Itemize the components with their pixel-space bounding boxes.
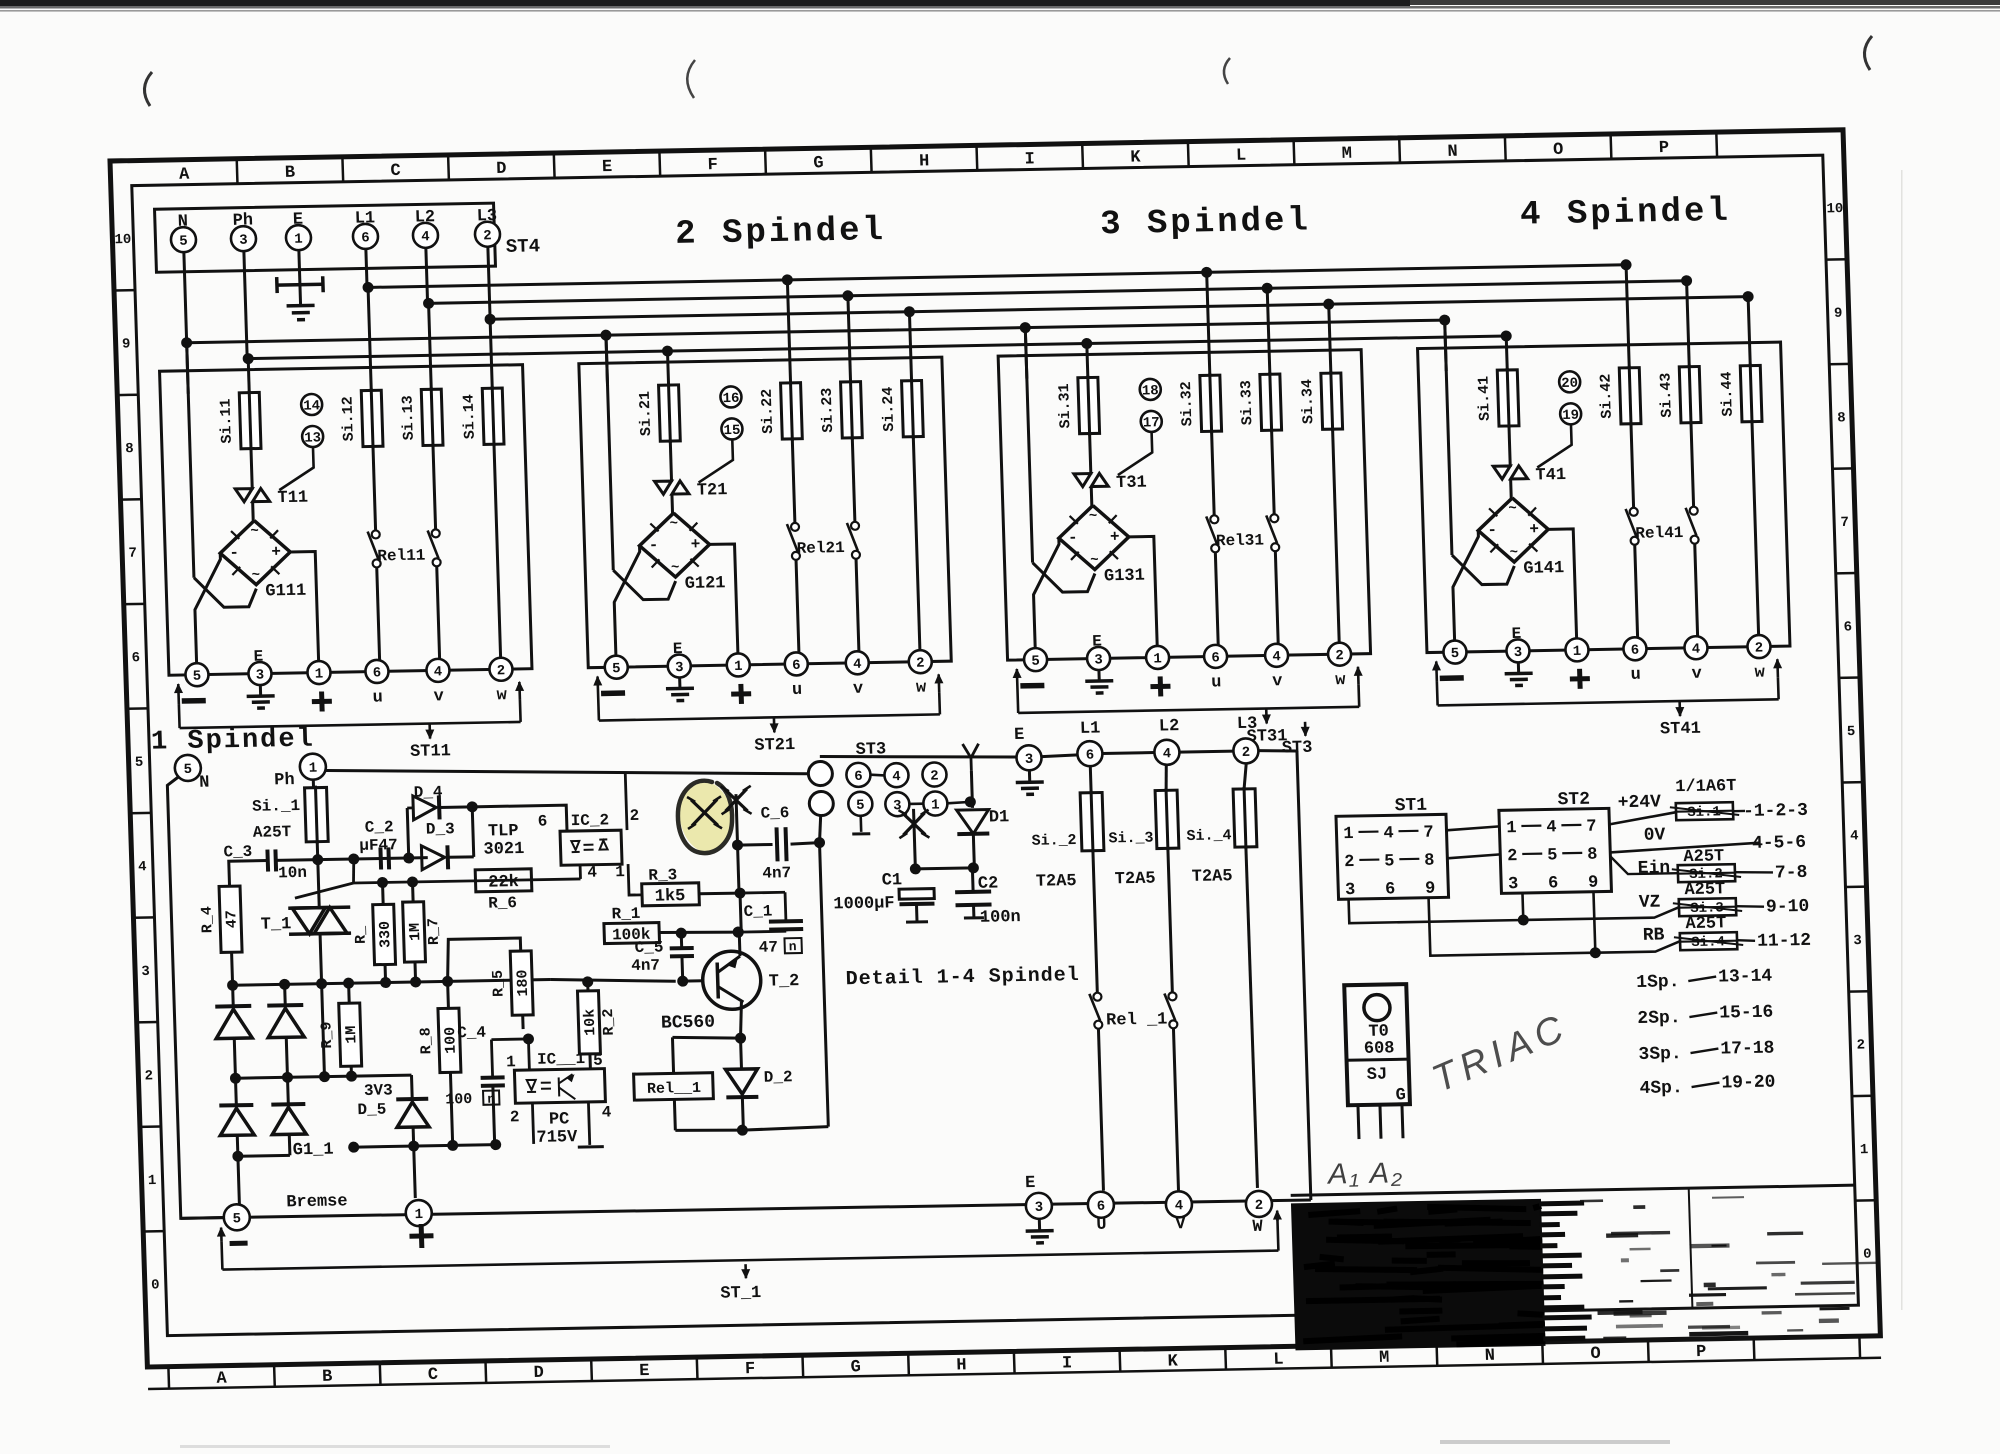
svg-text:2: 2 xyxy=(1344,853,1355,872)
svg-text:6: 6 xyxy=(131,650,140,666)
svg-text:D_4: D_4 xyxy=(413,783,443,802)
svg-text:A25T: A25T xyxy=(1684,880,1725,900)
svg-text:4: 4 xyxy=(1383,824,1394,843)
svg-text:Si._4: Si._4 xyxy=(1186,827,1232,845)
svg-text:E: E xyxy=(639,1362,650,1381)
svg-text:L: L xyxy=(1273,1351,1284,1370)
svg-text:~: ~ xyxy=(1508,501,1517,517)
svg-text:3: 3 xyxy=(1035,1200,1044,1216)
svg-text:6: 6 xyxy=(1631,643,1640,659)
svg-text:PC: PC xyxy=(549,1110,570,1129)
svg-text:Si.11: Si.11 xyxy=(217,398,235,443)
svg-text:Ph: Ph xyxy=(274,771,295,790)
svg-text:SJ: SJ xyxy=(1367,1066,1388,1085)
svg-text:16: 16 xyxy=(722,391,739,407)
svg-text:3: 3 xyxy=(1345,881,1356,900)
svg-text:5: 5 xyxy=(593,1052,603,1070)
svg-text:2: 2 xyxy=(1242,745,1251,761)
svg-text:2: 2 xyxy=(930,768,939,784)
svg-text:2: 2 xyxy=(510,1108,520,1126)
svg-text:v: v xyxy=(433,687,444,706)
svg-text:1: 1 xyxy=(615,863,625,881)
svg-text:4: 4 xyxy=(1272,649,1281,665)
svg-text:608: 608 xyxy=(1364,1039,1395,1059)
svg-text:3Sp.: 3Sp. xyxy=(1638,1044,1682,1065)
svg-text:Si._1: Si._1 xyxy=(252,797,301,816)
svg-text:ST41: ST41 xyxy=(1660,720,1701,740)
svg-text:IC_2: IC_2 xyxy=(570,811,609,830)
svg-text:R_1: R_1 xyxy=(611,905,640,924)
svg-text:A: A xyxy=(179,166,191,185)
svg-text:F: F xyxy=(745,1360,756,1379)
svg-text:I: I xyxy=(1062,1354,1073,1373)
svg-text:17: 17 xyxy=(1143,415,1160,431)
svg-text:4n7: 4n7 xyxy=(762,864,791,883)
svg-text:10: 10 xyxy=(1826,201,1843,217)
svg-text:+24V: +24V xyxy=(1617,792,1661,813)
svg-text:1: 1 xyxy=(414,1207,423,1223)
svg-text:1: 1 xyxy=(294,232,303,248)
svg-text:C_4: C_4 xyxy=(457,1024,487,1043)
svg-text:6: 6 xyxy=(537,813,547,831)
svg-text:C: C xyxy=(390,162,401,181)
svg-text:L3: L3 xyxy=(1237,715,1258,734)
svg-text:D_2: D_2 xyxy=(763,1068,792,1087)
svg-text:T2A5: T2A5 xyxy=(1192,867,1233,887)
svg-text:47: 47 xyxy=(223,910,241,928)
svg-text:13-14: 13-14 xyxy=(1718,967,1773,988)
svg-text:D: D xyxy=(496,160,507,179)
svg-text:4Sp.: 4Sp. xyxy=(1639,1078,1683,1099)
svg-text:5: 5 xyxy=(612,661,621,677)
svg-text:5: 5 xyxy=(856,798,865,814)
svg-text:v: v xyxy=(853,680,864,699)
svg-text:C: C xyxy=(428,1366,439,1385)
svg-text:Si.31: Si.31 xyxy=(1056,383,1074,428)
svg-text:3: 3 xyxy=(141,964,150,980)
svg-text:T21: T21 xyxy=(697,481,728,501)
svg-text:2Sp.: 2Sp. xyxy=(1637,1008,1681,1029)
svg-text:R_9: R_9 xyxy=(318,1021,336,1048)
svg-text:T2A5: T2A5 xyxy=(1115,870,1156,890)
svg-text:2: 2 xyxy=(1335,648,1344,664)
svg-text:3 Spindel: 3 Spindel xyxy=(1100,202,1312,244)
svg-text:1/1A6T: 1/1A6T xyxy=(1675,777,1737,797)
svg-text:A: A xyxy=(216,1370,228,1389)
svg-text:u: u xyxy=(792,681,803,700)
svg-text:B: B xyxy=(322,1368,333,1387)
svg-text:1k5: 1k5 xyxy=(655,887,686,907)
svg-text:Rel41: Rel41 xyxy=(1635,524,1684,543)
svg-text:2: 2 xyxy=(629,807,639,825)
svg-text:4: 4 xyxy=(421,229,430,245)
svg-text:5: 5 xyxy=(1847,724,1856,740)
svg-text:N: N xyxy=(1485,1347,1496,1366)
svg-text:E: E xyxy=(673,640,683,658)
svg-text:~: ~ xyxy=(671,560,680,576)
svg-text:L1: L1 xyxy=(1080,720,1101,739)
svg-text:10: 10 xyxy=(114,232,131,248)
svg-text:6: 6 xyxy=(1843,619,1852,635)
svg-text:u: u xyxy=(1211,673,1222,692)
svg-text:5: 5 xyxy=(193,669,202,685)
svg-text:1 Spindel: 1 Spindel xyxy=(151,725,316,758)
svg-text:L: L xyxy=(1236,147,1247,166)
svg-text:Si.12: Si.12 xyxy=(339,396,357,441)
svg-text:Si.32: Si.32 xyxy=(1178,381,1196,426)
svg-text:+: + xyxy=(690,536,700,554)
svg-text:D_5: D_5 xyxy=(357,1101,386,1120)
svg-text:Si.23: Si.23 xyxy=(819,388,837,433)
svg-text:19-20: 19-20 xyxy=(1721,1073,1776,1094)
svg-text:19: 19 xyxy=(1562,408,1579,424)
svg-text:4: 4 xyxy=(853,657,862,673)
svg-text:Detail 1-4 Spindel: Detail 1-4 Spindel xyxy=(845,964,1080,991)
svg-text:1: 1 xyxy=(1573,644,1582,660)
svg-text:2: 2 xyxy=(144,1068,153,1084)
svg-text:B: B xyxy=(285,164,296,183)
svg-text:8: 8 xyxy=(1837,410,1846,426)
svg-text:P: P xyxy=(1696,1343,1707,1362)
svg-text:R_7: R_7 xyxy=(425,918,443,945)
svg-text:Si._2: Si._2 xyxy=(1031,832,1077,850)
svg-text:H: H xyxy=(956,1356,967,1375)
svg-text:47: 47 xyxy=(758,938,778,956)
svg-text:L2: L2 xyxy=(1159,717,1180,736)
svg-text:9: 9 xyxy=(1425,880,1436,899)
svg-text:N: N xyxy=(1447,143,1458,162)
svg-text:w: w xyxy=(496,686,508,705)
svg-text:9: 9 xyxy=(1588,874,1599,893)
svg-text:5: 5 xyxy=(1384,852,1395,871)
svg-text:~: ~ xyxy=(251,568,260,584)
svg-text:M: M xyxy=(1341,145,1352,164)
svg-text:K: K xyxy=(1130,148,1142,167)
svg-text:4-5-6: 4-5-6 xyxy=(1752,833,1807,854)
svg-text:E: E xyxy=(253,648,263,666)
svg-text:8: 8 xyxy=(1424,852,1435,871)
svg-text:-: - xyxy=(1487,521,1497,539)
svg-text:Rel__1: Rel__1 xyxy=(647,1080,702,1098)
svg-text:100: 100 xyxy=(445,1091,473,1108)
svg-text:0: 0 xyxy=(151,1277,160,1293)
svg-text:ST3: ST3 xyxy=(1282,739,1313,759)
svg-text:µF47: µF47 xyxy=(359,836,398,855)
svg-text:7-8: 7-8 xyxy=(1775,863,1808,884)
svg-text:ST11: ST11 xyxy=(410,742,451,762)
svg-text:1: 1 xyxy=(734,659,743,675)
svg-text:4 Spindel: 4 Spindel xyxy=(1520,193,1732,235)
svg-text:G: G xyxy=(850,1358,861,1377)
svg-text:K: K xyxy=(1167,1352,1179,1371)
svg-text:Rel _1: Rel _1 xyxy=(1106,1010,1168,1030)
svg-text:6: 6 xyxy=(361,230,370,246)
svg-text:G: G xyxy=(813,154,824,173)
svg-text:Rel31: Rel31 xyxy=(1216,531,1265,550)
svg-text:0: 0 xyxy=(1863,1247,1872,1263)
svg-text:10k: 10k xyxy=(582,1009,600,1036)
svg-text:715V: 715V xyxy=(536,1128,578,1148)
svg-text:n: n xyxy=(789,939,797,954)
svg-text:10n: 10n xyxy=(278,864,307,883)
svg-text:6: 6 xyxy=(1548,874,1559,893)
svg-text:v: v xyxy=(1272,672,1283,691)
svg-text:5: 5 xyxy=(1031,654,1040,670)
svg-text:u: u xyxy=(1630,666,1641,685)
svg-text:Si.24: Si.24 xyxy=(880,386,898,431)
svg-text:C_3: C_3 xyxy=(223,843,252,862)
svg-text:3V3: 3V3 xyxy=(364,1081,393,1100)
svg-text:3021: 3021 xyxy=(483,840,524,860)
svg-text:100n: 100n xyxy=(980,908,1021,928)
svg-text:22k: 22k xyxy=(488,873,519,893)
svg-text:2: 2 xyxy=(1856,1038,1865,1054)
svg-text:R_8: R_8 xyxy=(418,1027,436,1054)
svg-text:4: 4 xyxy=(1546,818,1557,837)
svg-text:C_1: C_1 xyxy=(743,903,772,922)
svg-text:ST1: ST1 xyxy=(1394,796,1427,817)
svg-text:8: 8 xyxy=(125,441,134,457)
svg-text:E: E xyxy=(1014,726,1025,745)
svg-text:18: 18 xyxy=(1142,383,1159,399)
svg-text:7: 7 xyxy=(1586,818,1597,837)
svg-text:R_2: R_2 xyxy=(600,1008,618,1035)
svg-text:T2A5: T2A5 xyxy=(1036,872,1077,892)
svg-text:C_2: C_2 xyxy=(365,818,394,837)
svg-text:9: 9 xyxy=(1834,306,1843,322)
svg-text:E: E xyxy=(1092,632,1102,650)
svg-text:D_3: D_3 xyxy=(426,820,455,839)
svg-text:R_3: R_3 xyxy=(648,866,677,885)
svg-text:~: ~ xyxy=(669,516,678,532)
svg-text:Si.14: Si.14 xyxy=(460,394,478,439)
svg-text:3: 3 xyxy=(1025,752,1034,768)
svg-text:2: 2 xyxy=(483,228,492,244)
svg-text:330: 330 xyxy=(377,921,395,948)
svg-text:R_5: R_5 xyxy=(490,970,508,997)
svg-text:G: G xyxy=(1395,1086,1406,1105)
svg-text:Si.44: Si.44 xyxy=(1718,371,1736,416)
svg-text:C1: C1 xyxy=(881,871,902,890)
svg-text:H: H xyxy=(919,152,930,171)
svg-text:TLP: TLP xyxy=(488,822,519,842)
svg-text:U: U xyxy=(1096,1216,1107,1235)
svg-text:u: u xyxy=(372,688,383,707)
svg-text:O: O xyxy=(1553,141,1564,160)
svg-text:1000µF: 1000µF xyxy=(833,894,895,914)
svg-text:7: 7 xyxy=(1423,824,1434,843)
svg-text:Si.43: Si.43 xyxy=(1657,372,1675,417)
svg-text:8: 8 xyxy=(1587,846,1598,865)
svg-text:6: 6 xyxy=(1385,880,1396,899)
svg-text:1Sp.: 1Sp. xyxy=(1636,972,1680,993)
svg-text:1: 1 xyxy=(1860,1142,1869,1158)
svg-text:1M: 1M xyxy=(407,923,425,941)
svg-text:A25T: A25T xyxy=(253,823,292,842)
svg-text:~: ~ xyxy=(250,524,259,540)
svg-text:17-18: 17-18 xyxy=(1720,1039,1775,1060)
svg-text:1: 1 xyxy=(148,1173,157,1189)
svg-text:1: 1 xyxy=(315,666,324,682)
svg-text:13: 13 xyxy=(304,430,321,446)
svg-text:ST21: ST21 xyxy=(754,736,795,756)
svg-text:D1: D1 xyxy=(989,808,1010,827)
svg-text:Si.21: Si.21 xyxy=(637,391,655,436)
svg-text:ST2: ST2 xyxy=(1557,790,1590,811)
svg-text:E: E xyxy=(1511,625,1521,643)
svg-text:-1-2-3: -1-2-3 xyxy=(1743,801,1808,822)
svg-text:C_5: C_5 xyxy=(634,938,663,957)
svg-text:F: F xyxy=(707,156,718,175)
svg-text:6: 6 xyxy=(1086,748,1095,764)
svg-text:G111: G111 xyxy=(265,582,306,602)
svg-text:n: n xyxy=(487,1092,495,1107)
svg-text:G121: G121 xyxy=(684,574,725,594)
svg-text:3: 3 xyxy=(675,660,684,676)
svg-text:5: 5 xyxy=(183,762,192,778)
svg-text:Rel21: Rel21 xyxy=(796,539,845,558)
svg-text:-: - xyxy=(229,544,239,562)
svg-text:3: 3 xyxy=(1853,933,1862,949)
svg-text:P: P xyxy=(1659,139,1670,158)
svg-text:1: 1 xyxy=(931,797,940,813)
svg-text:Ein: Ein xyxy=(1637,858,1670,879)
svg-text:4n7: 4n7 xyxy=(631,957,660,976)
svg-text:W: W xyxy=(1252,1218,1264,1237)
svg-text:6: 6 xyxy=(1211,650,1220,666)
svg-text:3: 3 xyxy=(239,233,248,249)
svg-text:5: 5 xyxy=(1547,846,1558,865)
svg-text:G1_1: G1_1 xyxy=(292,1141,333,1161)
svg-text:T_1: T_1 xyxy=(260,915,291,935)
svg-text:G141: G141 xyxy=(1523,559,1564,579)
svg-text:+: + xyxy=(1110,528,1120,546)
svg-text:4: 4 xyxy=(138,859,147,875)
svg-text:T31: T31 xyxy=(1116,474,1147,494)
svg-text:7: 7 xyxy=(128,546,137,562)
svg-text:Si.13: Si.13 xyxy=(399,395,417,440)
svg-text:~: ~ xyxy=(1509,545,1518,561)
svg-text:2: 2 xyxy=(1755,641,1764,657)
svg-text:Si.42: Si.42 xyxy=(1597,374,1615,419)
svg-text:1: 1 xyxy=(1153,651,1162,667)
svg-text:4: 4 xyxy=(587,864,598,882)
svg-text:T_2: T_2 xyxy=(769,972,800,992)
svg-text:4: 4 xyxy=(601,1104,612,1122)
svg-text:0V: 0V xyxy=(1643,825,1665,845)
svg-text:6: 6 xyxy=(373,665,382,681)
svg-text:3: 3 xyxy=(256,668,265,684)
svg-text:2: 2 xyxy=(1507,847,1518,866)
svg-text:4: 4 xyxy=(1850,828,1859,844)
svg-text:G131: G131 xyxy=(1104,567,1145,587)
svg-text:RB: RB xyxy=(1643,925,1665,945)
svg-text:180: 180 xyxy=(514,969,532,996)
svg-text:R_4: R_4 xyxy=(199,906,217,933)
svg-text:4: 4 xyxy=(1692,642,1701,658)
svg-text:6: 6 xyxy=(792,658,801,674)
svg-text:2 Spindel: 2 Spindel xyxy=(675,212,887,254)
svg-text:V: V xyxy=(1175,1215,1187,1234)
svg-text:Si.34: Si.34 xyxy=(1299,379,1317,424)
svg-text:2: 2 xyxy=(916,656,925,672)
svg-text:1: 1 xyxy=(1506,819,1517,838)
svg-text:O: O xyxy=(1590,1345,1601,1364)
svg-text:9: 9 xyxy=(122,337,131,353)
svg-text:ST4: ST4 xyxy=(506,235,541,258)
svg-text:3: 3 xyxy=(1508,875,1519,894)
svg-text:-: - xyxy=(1068,529,1078,547)
svg-text:~: ~ xyxy=(1090,552,1099,568)
svg-text:ST_1: ST_1 xyxy=(720,1284,761,1304)
svg-text:E: E xyxy=(602,158,613,177)
svg-text:7: 7 xyxy=(1840,515,1849,531)
svg-text:1: 1 xyxy=(1343,825,1354,844)
svg-text:C_6: C_6 xyxy=(760,804,789,823)
svg-text:I: I xyxy=(1024,150,1035,169)
svg-text:Si._3: Si._3 xyxy=(1108,830,1154,848)
svg-text:N: N xyxy=(199,774,210,793)
svg-text:1M: 1M xyxy=(343,1025,361,1043)
svg-text:~: ~ xyxy=(1089,508,1098,524)
svg-text:5: 5 xyxy=(179,234,188,250)
svg-text:3: 3 xyxy=(1514,645,1523,661)
svg-text:R_6: R_6 xyxy=(488,894,517,913)
svg-text:2: 2 xyxy=(497,663,506,679)
svg-text:Si.22: Si.22 xyxy=(759,389,777,434)
svg-text:A25T: A25T xyxy=(1685,914,1726,934)
svg-text:D: D xyxy=(533,1364,544,1383)
svg-text:-: - xyxy=(648,536,658,554)
svg-text:+: + xyxy=(1529,521,1539,539)
svg-text:R_: R_ xyxy=(352,925,370,944)
svg-text:Si.33: Si.33 xyxy=(1238,380,1256,425)
svg-text:Rel11: Rel11 xyxy=(377,547,426,566)
svg-text:+: + xyxy=(271,543,281,561)
svg-text:6: 6 xyxy=(1097,1199,1106,1215)
svg-text:11-12: 11-12 xyxy=(1757,931,1812,952)
svg-text:T11: T11 xyxy=(277,489,308,509)
svg-text:4: 4 xyxy=(892,769,901,785)
svg-text:w: w xyxy=(1754,664,1766,683)
svg-text:20: 20 xyxy=(1561,376,1578,392)
svg-text:T41: T41 xyxy=(1535,466,1566,486)
svg-text:1: 1 xyxy=(506,1053,516,1071)
svg-text:VZ: VZ xyxy=(1639,893,1661,913)
svg-text:IC__1: IC__1 xyxy=(537,1050,586,1069)
svg-text:w: w xyxy=(1335,671,1347,690)
svg-text:Si.41: Si.41 xyxy=(1475,376,1493,421)
svg-text:9-10: 9-10 xyxy=(1766,897,1810,918)
svg-text:3: 3 xyxy=(1094,652,1103,668)
svg-text:BC560: BC560 xyxy=(661,1013,716,1034)
svg-text:4: 4 xyxy=(1175,1198,1184,1214)
svg-text:5: 5 xyxy=(1451,646,1460,662)
svg-text:15-16: 15-16 xyxy=(1719,1003,1774,1024)
svg-text:5: 5 xyxy=(135,755,144,771)
svg-text:w: w xyxy=(916,679,928,698)
svg-text:v: v xyxy=(1691,665,1702,684)
svg-text:4: 4 xyxy=(434,664,443,680)
svg-text:15: 15 xyxy=(723,423,740,439)
svg-text:6: 6 xyxy=(854,769,863,785)
svg-text:2: 2 xyxy=(1255,1198,1264,1214)
svg-text:14: 14 xyxy=(303,398,320,414)
svg-text:1: 1 xyxy=(308,761,317,777)
svg-text:4: 4 xyxy=(1163,746,1172,762)
svg-text:A₁ A₂: A₁ A₂ xyxy=(1326,1157,1405,1190)
svg-text:C2: C2 xyxy=(978,874,999,893)
